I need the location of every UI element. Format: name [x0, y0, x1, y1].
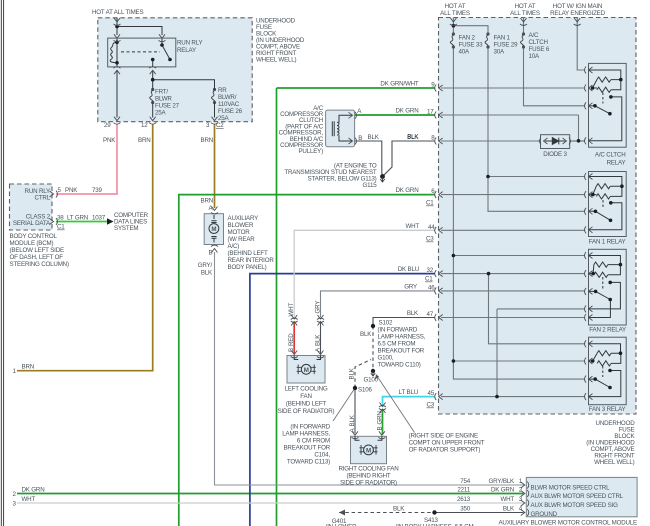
svg-text:WHEEL WELL): WHEEL WELL): [256, 57, 297, 64]
svg-text:2613: 2613: [457, 496, 471, 503]
svg-text:A/C: A/C: [529, 32, 539, 39]
svg-text:LT GRN: LT GRN: [67, 215, 88, 222]
svg-text:38: 38: [57, 215, 64, 222]
svg-text:C1: C1: [57, 224, 65, 231]
svg-text:17: 17: [427, 109, 434, 116]
svg-text:C2: C2: [216, 122, 224, 129]
svg-text:CTRL: CTRL: [35, 195, 51, 202]
svg-text:10A: 10A: [529, 53, 541, 60]
svg-text:754: 754: [460, 478, 471, 485]
svg-text:M: M: [304, 367, 309, 374]
svg-text:MOTOR: MOTOR: [228, 229, 251, 236]
svg-text:TOWARD C110): TOWARD C110): [378, 362, 421, 369]
svg-text:ALL TIMES: ALL TIMES: [440, 10, 470, 17]
svg-text:FUSE 29: FUSE 29: [494, 42, 519, 49]
svg-text:45: 45: [427, 390, 434, 397]
svg-text:(BEHIND RIGHT: (BEHIND RIGHT: [346, 473, 390, 480]
svg-text:OF DASH, LEFT OF: OF DASH, LEFT OF: [10, 254, 64, 261]
svg-text:BLK: BLK: [407, 310, 419, 317]
svg-text:COMPT ON UPPER FRONT: COMPT ON UPPER FRONT: [409, 440, 485, 447]
svg-text:TOWARD C113): TOWARD C113): [287, 459, 330, 466]
svg-text:CLTCH: CLTCH: [529, 39, 548, 46]
svg-text:S102: S102: [379, 320, 393, 327]
svg-text:6.5 CM FROM: 6.5 CM FROM: [378, 341, 416, 348]
svg-text:G100,: G100,: [378, 355, 394, 362]
svg-text:BODY PANEL): BODY PANEL): [228, 264, 267, 271]
svg-text:BLWR MOTOR SPEED CTRL: BLWR MOTOR SPEED CTRL: [531, 485, 611, 492]
svg-text:REAR INTERIOR: REAR INTERIOR: [228, 257, 275, 264]
svg-text:(BELOW LEFT SIDE: (BELOW LEFT SIDE: [10, 247, 64, 254]
svg-text:DK GRN: DK GRN: [491, 487, 514, 494]
svg-text:DK BLU: DK BLU: [398, 266, 419, 273]
svg-text:B: B: [288, 348, 295, 352]
svg-text:BREAKOUT FOR: BREAKOUT FOR: [283, 445, 330, 452]
svg-text:DK GRN: DK GRN: [396, 187, 419, 194]
svg-text:2211: 2211: [457, 487, 470, 494]
svg-text:B: B: [377, 427, 384, 431]
svg-text:FAN: FAN: [300, 393, 312, 400]
svg-text:SIDE OF RADIATOR): SIDE OF RADIATOR): [278, 408, 335, 415]
svg-text:110VAC: 110VAC: [218, 101, 240, 108]
svg-text:FUSE 27: FUSE 27: [155, 103, 180, 110]
svg-text:ALL TIMES: ALL TIMES: [510, 10, 540, 17]
svg-text:RED: RED: [288, 333, 295, 346]
svg-text:FUSE 6: FUSE 6: [529, 46, 550, 53]
svg-text:(RIGHT SIDE OF ENGINE: (RIGHT SIDE OF ENGINE: [409, 433, 478, 440]
svg-text:WHT: WHT: [288, 303, 295, 317]
svg-text:BLK: BLK: [503, 506, 515, 513]
svg-text:OF RADIATOR SUPPORT): OF RADIATOR SUPPORT): [409, 447, 481, 454]
svg-text:GRN: GRN: [377, 411, 384, 424]
svg-text:LEFT COOLING: LEFT COOLING: [284, 386, 327, 393]
svg-text:30A: 30A: [494, 49, 506, 56]
svg-text:(BEHIND LEFT: (BEHIND LEFT: [228, 250, 269, 257]
svg-text:12: 12: [141, 122, 148, 129]
svg-text:AUXILIARY: AUXILIARY: [228, 215, 259, 222]
svg-text:FAN 2: FAN 2: [459, 35, 476, 42]
svg-text:29: 29: [104, 122, 111, 129]
svg-text:G115: G115: [363, 182, 378, 189]
svg-text:40A: 40A: [459, 49, 471, 56]
svg-text:FAN 1 RELAY: FAN 1 RELAY: [589, 239, 626, 246]
svg-text:GRY/: GRY/: [198, 262, 213, 269]
svg-text:BRN: BRN: [138, 137, 151, 144]
svg-text:1037: 1037: [92, 215, 106, 222]
svg-text:25A: 25A: [155, 110, 167, 117]
svg-text:(IN FORWARD: (IN FORWARD: [290, 424, 330, 431]
svg-text:DIODE 3: DIODE 3: [543, 151, 567, 158]
svg-text:LT BLU: LT BLU: [399, 389, 418, 396]
svg-text:BLK: BLK: [368, 134, 380, 141]
svg-text:PNK: PNK: [103, 137, 116, 144]
svg-text:HOT AT ALL TIMES: HOT AT ALL TIMES: [92, 9, 144, 16]
svg-text:WHT: WHT: [500, 496, 514, 503]
svg-text:BLK: BLK: [315, 334, 322, 346]
svg-text:C104,: C104,: [314, 452, 330, 459]
svg-text:RIGHT COOLING FAN: RIGHT COOLING FAN: [338, 466, 398, 473]
svg-text:WHEEL WELL): WHEEL WELL): [594, 459, 635, 466]
svg-text:FAN 3 RELAY: FAN 3 RELAY: [589, 406, 626, 413]
svg-text:WHT: WHT: [405, 223, 419, 230]
svg-text:FUSE 26: FUSE 26: [218, 108, 243, 115]
svg-text:BLK: BLK: [393, 506, 405, 513]
svg-text:BLK: BLK: [349, 367, 356, 379]
svg-text:32: 32: [426, 267, 433, 274]
svg-text:739: 739: [92, 187, 103, 194]
svg-text:S106: S106: [358, 387, 372, 394]
svg-text:M: M: [211, 226, 216, 233]
svg-text:(IN FORWARD: (IN FORWARD: [378, 327, 418, 334]
svg-text:(W/ REAR: (W/ REAR: [228, 236, 256, 243]
svg-text:47: 47: [426, 311, 433, 318]
svg-text:G100: G100: [364, 377, 379, 384]
svg-text:BLOWER: BLOWER: [228, 222, 254, 229]
svg-text:RR: RR: [218, 87, 227, 94]
svg-text:RUN RLY: RUN RLY: [177, 40, 202, 47]
svg-text:BREAKOUT FOR: BREAKOUT FOR: [378, 348, 425, 355]
svg-text:FAN 1: FAN 1: [494, 35, 511, 42]
svg-text:SERIAL DATA: SERIAL DATA: [13, 220, 51, 227]
svg-text:FUSE 33: FUSE 33: [459, 42, 484, 49]
svg-text:46: 46: [428, 284, 435, 291]
svg-text:AUXILIARY BLOWER MOTOR CONTROL: AUXILIARY BLOWER MOTOR CONTROL MODULE: [498, 520, 637, 526]
svg-text:BRN: BRN: [201, 198, 214, 205]
svg-text:BLK: BLK: [407, 134, 419, 141]
svg-text:6 CM FROM: 6 CM FROM: [297, 438, 330, 445]
svg-text:STEERING COLUMN): STEERING COLUMN): [10, 261, 69, 268]
svg-text:350: 350: [460, 506, 471, 513]
svg-text:BLK: BLK: [360, 331, 372, 338]
svg-text:RELAY ENERGIZED: RELAY ENERGIZED: [550, 10, 606, 17]
svg-text:RELAY: RELAY: [177, 47, 196, 54]
svg-text:C1: C1: [426, 200, 434, 207]
svg-text:PULLEY): PULLEY): [298, 148, 323, 155]
svg-text:FRT/: FRT/: [155, 89, 168, 96]
svg-text:BRN: BRN: [22, 364, 35, 371]
svg-text:GRY: GRY: [404, 283, 417, 290]
svg-text:DK GRN: DK GRN: [396, 108, 419, 115]
svg-text:BLK: BLK: [349, 414, 356, 426]
svg-text:BLWR: BLWR: [155, 96, 172, 103]
svg-text:GRY/BLK: GRY/BLK: [489, 478, 516, 485]
svg-text:C1: C1: [425, 276, 433, 283]
svg-text:25A: 25A: [218, 115, 230, 122]
svg-text:PNK: PNK: [65, 187, 78, 194]
svg-text:AUX BLWR MOTOR SPEED SIG: AUX BLWR MOTOR SPEED SIG: [531, 502, 619, 509]
svg-text:BLWR/: BLWR/: [218, 94, 237, 101]
svg-text:AUX BLWR MOTOR SPEED CTRL: AUX BLWR MOTOR SPEED CTRL: [531, 493, 624, 500]
svg-text:GROUND: GROUND: [531, 511, 558, 518]
svg-text:LAMP HARNESS,: LAMP HARNESS,: [378, 334, 426, 341]
svg-text:B: B: [209, 250, 213, 257]
svg-text:FAN 2 RELAY: FAN 2 RELAY: [589, 327, 626, 334]
svg-text:A/C): A/C): [228, 243, 240, 250]
svg-text:SIDE OF RADIATOR): SIDE OF RADIATOR): [340, 480, 397, 487]
svg-text:RELAY: RELAY: [607, 160, 626, 167]
svg-text:SYSTEM: SYSTEM: [114, 225, 138, 232]
svg-text:C3: C3: [426, 402, 434, 409]
svg-text:C3: C3: [426, 236, 434, 243]
svg-text:LAMP HARNESS,: LAMP HARNESS,: [282, 431, 330, 438]
svg-text:GRY: GRY: [315, 301, 322, 314]
svg-text:M: M: [366, 447, 371, 454]
svg-text:(BEHIND LEFT: (BEHIND LEFT: [286, 401, 327, 408]
svg-text:MODULE (BCM): MODULE (BCM): [10, 240, 54, 247]
svg-text:DK GRN/WHT: DK GRN/WHT: [380, 81, 418, 88]
svg-text:BODY CONTROL: BODY CONTROL: [10, 233, 58, 240]
svg-text:B: B: [358, 135, 362, 142]
svg-text:BRN: BRN: [201, 137, 214, 144]
svg-text:WHT: WHT: [22, 496, 36, 503]
svg-text:44: 44: [428, 224, 435, 231]
svg-text:A/C CLTCH: A/C CLTCH: [595, 152, 626, 159]
svg-text:BLK: BLK: [201, 270, 213, 277]
svg-text:DK GRN: DK GRN: [22, 487, 45, 494]
